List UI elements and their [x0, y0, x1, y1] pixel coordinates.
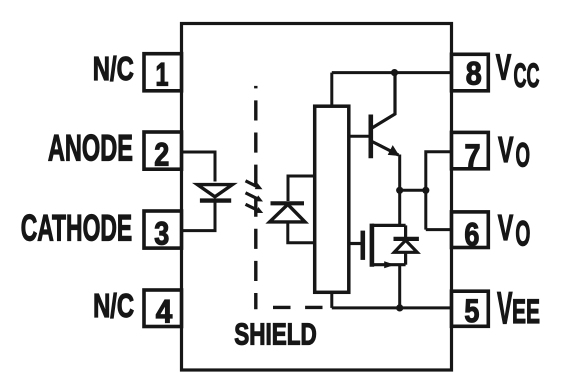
junction dot VEE: [396, 304, 403, 311]
svg-text:ANODE: ANODE: [48, 127, 133, 169]
svg-text:1: 1: [156, 56, 169, 92]
MOSFET Q2 source arrowhead: [384, 261, 395, 268]
light arrow 3: [246, 204, 258, 210]
pin box 7: [452, 132, 489, 168]
MOSFET Q2 source lead: [372, 263, 406, 266]
wire node A down to MOSFET drain: [398, 190, 401, 225]
pin box 4: [144, 290, 182, 327]
svg-text:N/C: N/C: [93, 51, 134, 88]
wire amp top to VCC rail: [330, 73, 333, 107]
svg-text:2: 2: [154, 136, 169, 172]
pin box 8: [452, 54, 489, 91]
svg-text:CATHODE: CATHODE: [21, 207, 133, 249]
pin box 1: [144, 54, 182, 91]
wire emitter down to node A: [398, 155, 401, 191]
pin box 3: [144, 211, 182, 248]
wire amp to transistor base: [349, 135, 369, 138]
svg-text:SHIELD: SHIELD: [234, 319, 316, 352]
VEE rail to pin 5: [332, 306, 452, 309]
transistor Q1 emitter arrowhead: [388, 145, 400, 156]
wire pin2 to LED anode: [182, 152, 216, 182]
wire LED cathode to pin3: [182, 201, 216, 231]
VCC rail to pin 8: [332, 71, 452, 74]
diode D3 bottom lead: [404, 253, 407, 265]
junction dot node B: [422, 187, 429, 194]
wire amp bottom to VEE rail: [330, 292, 333, 308]
photodiode D2 anode lead: [288, 222, 315, 243]
pin box 5: [452, 291, 489, 326]
LED D1 triangle: [197, 185, 232, 197]
diode D3 cathode bar: [394, 237, 419, 241]
pin box 6: [452, 212, 489, 248]
LED D1 cathode bar: [200, 198, 231, 202]
svg-text:V: V: [498, 129, 514, 170]
svg-text:V: V: [497, 282, 513, 333]
svg-text:V: V: [496, 47, 512, 88]
svg-text:7: 7: [465, 138, 481, 174]
pin box 2: [144, 132, 182, 169]
amplifier block: [315, 106, 349, 292]
transistor Q1 emitter: [372, 142, 399, 156]
svg-text:O: O: [516, 136, 531, 174]
photodiode D2 cathode lead: [288, 176, 315, 201]
junction dot node A: [396, 187, 403, 194]
MOSFET Q2 drain lead: [372, 224, 406, 227]
shield dashed vertical line: [254, 86, 257, 309]
transistor Q1 collector: [372, 73, 395, 128]
svg-text:O: O: [515, 213, 530, 253]
svg-text:6: 6: [464, 217, 479, 253]
svg-text:5: 5: [464, 293, 479, 329]
svg-text:4: 4: [156, 293, 173, 329]
diode D3 triangle: [394, 240, 417, 252]
photodiode D2 cathode bar: [271, 201, 305, 205]
svg-text:CC: CC: [514, 57, 540, 95]
MOSFET Q2 channel bar: [370, 224, 375, 267]
svg-text:8: 8: [466, 56, 482, 92]
light arrow 1: [246, 181, 257, 187]
wire source down to VEE rail: [398, 265, 401, 308]
light arrow 2: [246, 193, 257, 199]
diode D3 top lead: [404, 225, 407, 237]
svg-text:EE: EE: [512, 293, 540, 331]
svg-text:3: 3: [154, 215, 169, 251]
svg-text:V: V: [498, 207, 514, 248]
wire node A to node B: [400, 189, 426, 192]
chip outline U1: [182, 24, 452, 371]
wire node B up to pin 7: [426, 152, 452, 230]
wire amp to MOSFET gate: [349, 242, 361, 245]
shield dashed horizontal segment 2: [305, 306, 322, 309]
photodiode D2 triangle: [270, 204, 305, 222]
transistor Q1 base bar: [368, 115, 373, 159]
junction dot VCC/collector: [391, 69, 398, 76]
MOSFET Q2 gate bar: [360, 231, 365, 260]
wire node B down to pin 6: [426, 228, 452, 231]
svg-text:N/C: N/C: [93, 288, 134, 325]
shield dashed horizontal segment 1: [273, 306, 291, 309]
